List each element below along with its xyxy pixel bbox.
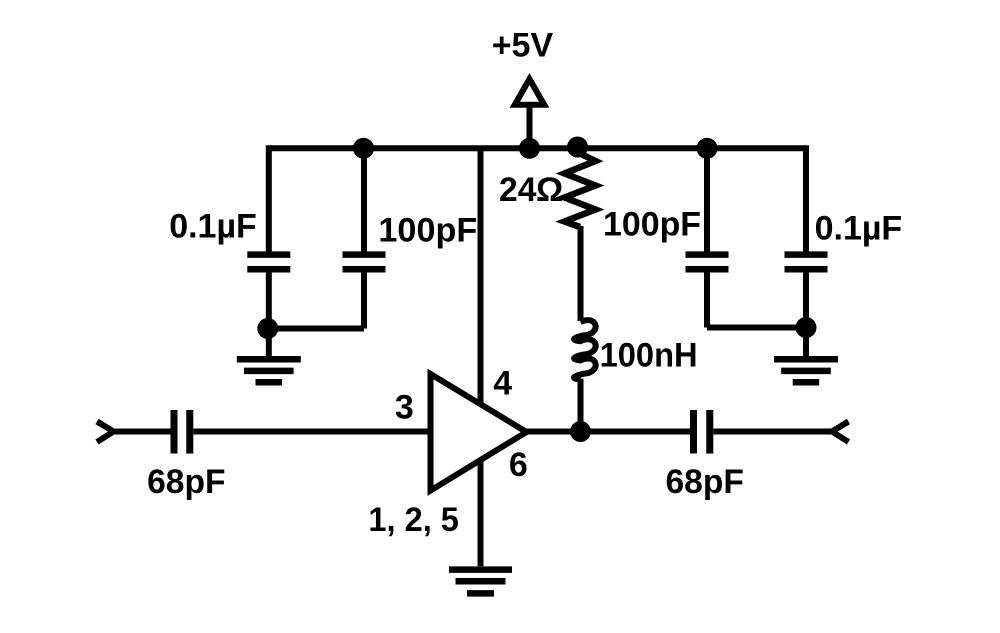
capacitor 0.1uF left plates: [247, 255, 290, 270]
svg-text:68pF: 68pF: [666, 463, 744, 501]
svg-text:24: 24: [499, 171, 536, 209]
wire: right 100pF top lead from rail: [704, 148, 710, 251]
wire: 68pF to amp pin 3: [194, 429, 432, 435]
svg-text:+5V: +5V: [492, 27, 554, 65]
wire: left ground stem: [266, 329, 272, 357]
wire: left bypass bottom joining wire: [269, 326, 364, 332]
wire: right 0.1uF bottom lead: [803, 272, 809, 327]
output connector: [832, 422, 849, 443]
node: output junction dot: [570, 421, 591, 442]
node: rail junction dot at 24ohm resistor: [567, 137, 588, 158]
node: rail junction dot at +5V: [519, 138, 540, 159]
svg-text:100pF: 100pF: [378, 212, 477, 250]
wire: right bypass bottom joining wire: [707, 325, 806, 331]
wire: left 100pF bottom lead: [361, 272, 367, 328]
svg-text:100pF: 100pF: [603, 206, 701, 244]
capacitor 68pF input plates: [174, 410, 190, 454]
wire: input to 68pF: [112, 429, 171, 435]
svg-text:68pF: 68pF: [147, 463, 225, 501]
resistor 24ohm zigzag: [565, 148, 596, 227]
wire: left 0.1uF bottom lead: [266, 272, 272, 328]
ground right: [774, 359, 838, 382]
wire: resistor to inductor: [578, 226, 584, 321]
inductor 100nH coil: [574, 320, 596, 379]
capacitor 68pF output plates: [694, 410, 710, 454]
svg-text:1, 2, 5: 1, 2, 5: [368, 501, 459, 539]
svg-text:4: 4: [493, 364, 512, 402]
svg-text:3: 3: [395, 389, 414, 427]
svg-text:100nH: 100nH: [600, 337, 698, 375]
ground left: [237, 359, 301, 382]
wire: +5V stem: [527, 105, 533, 148]
node: left ground junction dot: [257, 318, 278, 339]
node: rail junction dot at left 100pF: [353, 138, 374, 159]
svg-text:0.1µF: 0.1µF: [169, 208, 257, 246]
wire: pin 4 supply line from rail down through amp to ground bars: [478, 148, 484, 566]
svg-text:6: 6: [509, 446, 528, 484]
capacitor 0.1uF right plates: [785, 255, 828, 270]
power symbol +5V triangle: [515, 79, 544, 105]
wire: amp pin 6 output to 68pF: [527, 429, 691, 435]
op-amp buffer triangle: [431, 374, 527, 491]
svg-text:Ω: Ω: [536, 171, 563, 209]
node: rail junction dot at right 100pF: [697, 138, 718, 159]
node: right ground junction dot: [796, 317, 817, 338]
wire: left 100pF top lead from rail: [361, 148, 367, 251]
input connector: [97, 422, 114, 443]
wire: +5V top supply rail with corner drops to left 0.1uF and right 0.1uF: [269, 148, 806, 251]
wire: right ground stem: [803, 328, 809, 357]
ground bottom (amp pins 1,2,5): [449, 570, 512, 594]
svg-text:0.1µF: 0.1µF: [815, 210, 903, 248]
wire: right 100pF bottom lead: [704, 272, 710, 327]
wire: output 68pF to connector: [714, 429, 833, 435]
wire: inductor to output node: [578, 379, 584, 432]
capacitor 100pF left plates: [343, 255, 386, 270]
capacitor 100pF right plates: [686, 255, 729, 270]
